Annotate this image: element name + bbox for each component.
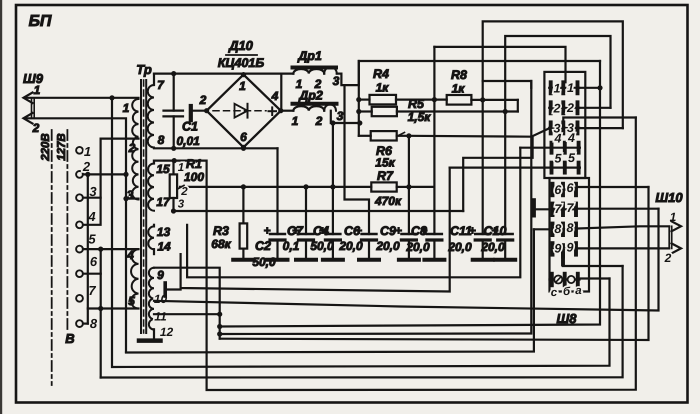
svg-text:8: 8 bbox=[158, 133, 165, 147]
winding pin 17 label bbox=[156, 195, 171, 209]
Ш8 row 2 labels bbox=[553, 101, 575, 115]
connector Ш8 housing upper bbox=[544, 72, 585, 178]
wire run w15-17 top to female3 bbox=[207, 118, 636, 391]
svg-text:20,0: 20,0 bbox=[375, 239, 400, 253]
wire R4 to R8 bbox=[396, 98, 447, 100]
fraction bar bbox=[226, 54, 257, 56]
wire transformer tap 2 step to terminal 3 bbox=[83, 139, 139, 198]
secondary winding 7-8 bbox=[148, 85, 154, 148]
label R1 pin 1 bbox=[178, 162, 184, 174]
label 127В bbox=[56, 133, 68, 161]
svg-text:Тр: Тр bbox=[136, 62, 152, 77]
capacitor C6 bottom lead bbox=[368, 240, 370, 259]
svg-text:а: а bbox=[575, 285, 582, 297]
Ш8 row 7 lead bbox=[553, 208, 577, 210]
node R1 top junction bbox=[172, 158, 177, 163]
svg-text:68к: 68к bbox=[211, 237, 231, 251]
svg-text:9: 9 bbox=[554, 241, 561, 255]
primary pin 3 label bbox=[127, 188, 134, 202]
Ш8 row 3 labels bbox=[554, 121, 575, 135]
transformer Тр label bbox=[136, 62, 152, 77]
svg-text:1к: 1к bbox=[376, 81, 390, 95]
svg-text:6: 6 bbox=[90, 254, 98, 269]
wire rail through R7 right bbox=[409, 186, 435, 188]
node terminal-2 / Ш9-2 junction bbox=[123, 172, 128, 177]
ground bar C7 bbox=[296, 258, 316, 262]
wire Ш9-1 to transformer pin 1 bbox=[25, 97, 139, 99]
wire R6 left lead bbox=[359, 135, 371, 137]
ground bar C8 bbox=[424, 258, 444, 262]
winding pin 8 label bbox=[158, 133, 165, 147]
label Д10 bbox=[228, 38, 254, 53]
capacitor C7 value bbox=[283, 239, 300, 253]
svg-text:5: 5 bbox=[88, 232, 96, 247]
wire winding 8 line bbox=[154, 147, 278, 149]
svg-text:С8: С8 bbox=[411, 224, 427, 238]
node winding 8 junction bbox=[171, 146, 176, 151]
svg-text:6: 6 bbox=[567, 181, 575, 195]
svg-text:220В: 220В bbox=[40, 133, 52, 162]
svg-text:4: 4 bbox=[126, 248, 134, 262]
wire C6 feed from Др1-3 bbox=[345, 85, 370, 234]
resistor R1 bbox=[170, 174, 177, 198]
svg-text:1: 1 bbox=[292, 114, 299, 128]
wire row2 left feed vertical bbox=[517, 100, 519, 112]
choke Др2 winding bbox=[293, 104, 336, 110]
svg-text:R7: R7 bbox=[377, 169, 394, 183]
svg-text:7: 7 bbox=[567, 201, 575, 215]
wire row8 right lead bbox=[578, 226, 669, 228]
wire R4 left lead bbox=[359, 98, 370, 100]
label R7 bbox=[377, 169, 394, 183]
wire row7 right lead bbox=[578, 208, 659, 210]
svg-text:5: 5 bbox=[128, 294, 135, 308]
svg-text:0,01: 0,01 bbox=[177, 134, 201, 148]
Ш8 row 8 pins bbox=[553, 224, 577, 236]
wire C10 vertical bbox=[504, 112, 506, 235]
connector Ш10 pin 2 label bbox=[664, 251, 672, 265]
wire run w14 to row5 bbox=[181, 168, 450, 292]
node tap-5 wire junction bbox=[98, 306, 103, 311]
wire R8 right lead bbox=[471, 99, 517, 101]
resistor R3 bbox=[240, 223, 248, 248]
winding 15 stub bbox=[153, 161, 155, 164]
capacitor C9 value bbox=[375, 239, 400, 253]
wire rail 17 bbox=[174, 210, 464, 212]
wire winding 15-17 top lead bbox=[154, 161, 207, 390]
svg-text:С6: С6 bbox=[344, 224, 361, 238]
capacitor C2 plates bbox=[270, 234, 285, 240]
svg-text:R5: R5 bbox=[408, 97, 425, 111]
resistor R5 bbox=[372, 107, 397, 116]
choke Др1 pin 2 label bbox=[314, 77, 322, 91]
svg-text:1: 1 bbox=[567, 81, 574, 95]
capacitor C4 label bbox=[313, 224, 329, 238]
terminal 7 of selector bbox=[76, 295, 83, 302]
node Др2-3 to C4 junction bbox=[330, 120, 335, 125]
svg-text:R1: R1 bbox=[186, 157, 202, 171]
svg-text:50,0: 50,0 bbox=[310, 239, 334, 253]
wire R network left vertical bbox=[358, 61, 360, 136]
node w11 fork junction bbox=[217, 312, 222, 317]
choke Др2 pin 2 label bbox=[315, 114, 323, 128]
wire bridge minus drop bbox=[276, 148, 278, 234]
wire run w10 to row7 bbox=[154, 209, 659, 311]
wire run Ш9-1 to contact a bbox=[112, 98, 610, 367]
wire terminal 6 step down bbox=[83, 273, 101, 275]
Ш8 row 7 labels bbox=[554, 201, 574, 216]
transformer primary winding 4-5 bbox=[131, 249, 138, 308]
ground bar C11 bbox=[473, 258, 493, 262]
svg-text:2: 2 bbox=[180, 186, 188, 198]
wire row1 right lead bbox=[579, 87, 600, 89]
capacitor C10 plus bbox=[491, 224, 498, 238]
capacitor C8 label bbox=[411, 224, 427, 238]
wire R6 line to Ш8 pin 3 bbox=[409, 135, 531, 138]
wire selector common vertical bbox=[100, 249, 102, 377]
svg-text:14: 14 bbox=[157, 240, 171, 254]
terminal 6 label bbox=[90, 254, 98, 269]
node R4 left bbox=[356, 97, 361, 102]
wire terminal 5 to transformer tap 4 bbox=[83, 248, 139, 250]
terminal 4 of selector bbox=[76, 221, 83, 228]
ground bar C10 bbox=[495, 258, 515, 262]
winding pin 9 label bbox=[157, 268, 164, 282]
svg-text:С9: С9 bbox=[380, 224, 396, 238]
svg-text:БП: БП bbox=[29, 13, 52, 30]
node R8 right bbox=[480, 97, 485, 102]
node R1 bottom junction bbox=[171, 208, 176, 213]
resistor R6 bbox=[371, 131, 397, 140]
wire row1 left feed bbox=[483, 81, 532, 88]
wire tap 3 stub bbox=[126, 198, 139, 200]
svg-text:8: 8 bbox=[567, 221, 574, 235]
transformer core line 1 bbox=[140, 80, 142, 333]
wire C11 vertical bbox=[482, 100, 484, 234]
winding 7 top stub bbox=[153, 74, 155, 85]
node winding 8 to bridge 6 bbox=[241, 146, 246, 151]
node run fork 1 bbox=[217, 324, 222, 329]
wire R5 left lead bbox=[359, 110, 372, 112]
svg-text:R4: R4 bbox=[373, 67, 389, 81]
svg-text:8: 8 bbox=[90, 316, 98, 331]
label R7 value 470к bbox=[374, 194, 402, 208]
Ш8 row 8 labels bbox=[554, 221, 573, 236]
terminal 1 label bbox=[84, 144, 91, 159]
node R5 left bbox=[356, 109, 361, 114]
capacitor C7 bottom lead bbox=[305, 240, 307, 259]
svg-text:2: 2 bbox=[82, 159, 91, 174]
capacitor C4 value bbox=[310, 239, 334, 253]
Ш8 row 3 pins bbox=[551, 122, 578, 133]
svg-text:7: 7 bbox=[157, 78, 165, 92]
connector Ш9 pin 2 arrow bbox=[24, 113, 33, 124]
Ш8 row 7 pins bbox=[553, 204, 577, 216]
wire female3 lead bbox=[563, 118, 636, 123]
capacitor C11 bottom lead bbox=[482, 240, 484, 259]
svg-text:Др2: Др2 bbox=[298, 89, 323, 103]
svg-text:2: 2 bbox=[32, 121, 40, 135]
svg-text:470к: 470к bbox=[374, 194, 402, 208]
capacitor C8 plus bbox=[420, 224, 427, 238]
capacitor C1 value 0,01 bbox=[177, 134, 201, 148]
svg-text:9: 9 bbox=[567, 240, 574, 254]
wire female9 lead bbox=[563, 265, 623, 267]
Ш8 bottom row lead bbox=[550, 278, 580, 280]
wire C4 top lead bbox=[332, 123, 334, 234]
label R4 bbox=[373, 67, 389, 81]
wire winding 7 to bridge and Др1 bbox=[154, 72, 293, 74]
wire terminal 2 to node bbox=[83, 173, 126, 175]
svg-text:50,0: 50,0 bbox=[252, 255, 276, 269]
label R3 value 68к bbox=[211, 237, 231, 251]
node bridge pin 4 bbox=[278, 108, 283, 113]
label R5 value 1,5к bbox=[408, 110, 432, 124]
wire row2 right lead bbox=[579, 107, 610, 109]
choke Др1 pin 3 label bbox=[333, 74, 340, 88]
svg-text:0,1: 0,1 bbox=[283, 239, 300, 253]
winding pin 10 label bbox=[154, 292, 168, 306]
label R6 bbox=[376, 144, 393, 158]
wire Др1 pin 3 down-right-up bbox=[337, 61, 600, 85]
svg-text:4: 4 bbox=[271, 89, 279, 103]
bridge pin 4 label bbox=[271, 89, 279, 103]
label В bbox=[65, 331, 74, 346]
wire Ш9-2 line down to bottom run bbox=[125, 199, 127, 352]
node C7 top bbox=[303, 184, 308, 189]
node terminal-2 branch bbox=[85, 172, 90, 177]
label R6 value 15к bbox=[375, 156, 395, 170]
choke Др2 label bbox=[298, 89, 323, 103]
wire screen tap stub bbox=[165, 288, 180, 290]
label R1 value 100 bbox=[184, 170, 204, 184]
label R8 value 1к bbox=[452, 82, 466, 96]
transformer core line 2 bbox=[145, 80, 147, 333]
Ш8 row 7 external bar bbox=[532, 200, 536, 215]
label КЦ401Б bbox=[218, 56, 265, 70]
svg-text:9: 9 bbox=[157, 268, 164, 282]
terminal 6 of selector bbox=[76, 270, 83, 277]
capacitor C8 plates bbox=[427, 234, 442, 240]
capacitor C2 value bbox=[252, 255, 276, 269]
label R8 bbox=[451, 68, 467, 82]
connector Ш8 label bbox=[557, 311, 578, 326]
capacitor C6 value bbox=[338, 239, 363, 253]
resistor R7 bbox=[371, 182, 396, 191]
Ш8 row 6 labels bbox=[554, 181, 574, 197]
svg-text:7: 7 bbox=[88, 283, 96, 298]
choke Др2 pin 3 label bbox=[337, 109, 344, 123]
winding pin 15 label bbox=[156, 162, 170, 176]
bridge pin 6 label bbox=[240, 130, 247, 144]
svg-text:2: 2 bbox=[315, 114, 323, 128]
svg-text:4: 4 bbox=[567, 131, 575, 145]
svg-text:1: 1 bbox=[123, 101, 130, 115]
svg-text:13: 13 bbox=[157, 225, 171, 239]
wire Ш9-2 to selector bbox=[25, 118, 126, 198]
ground bar R3 bbox=[233, 258, 254, 262]
terminal 8 label bbox=[90, 316, 98, 331]
Ш8 female 9 bar bbox=[561, 254, 565, 265]
wire R6-R7-C9 vertical bbox=[408, 136, 410, 234]
svg-text:R8: R8 bbox=[451, 68, 467, 82]
resistor R4 bbox=[370, 95, 397, 105]
node bridge pin 6 bbox=[241, 145, 246, 150]
svg-text:1: 1 bbox=[34, 83, 41, 97]
label R1 pin 2 bbox=[180, 186, 188, 198]
capacitor C9 plus bbox=[395, 224, 402, 238]
wire Др2 pin 3 lead bbox=[331, 111, 360, 123]
wire row6 right lead bbox=[578, 186, 649, 188]
svg-text:100: 100 bbox=[184, 170, 204, 184]
connector Ш10 pin 1 arrow bbox=[672, 221, 682, 231]
label БП bbox=[29, 13, 52, 30]
Ш8 row 9 lead bbox=[553, 248, 577, 250]
svg-text:12: 12 bbox=[160, 325, 174, 339]
wire R3 top lead bbox=[242, 187, 244, 224]
resistor R8 bbox=[447, 95, 472, 105]
wire bar to bridge pin 2 bbox=[193, 110, 207, 112]
svg-text:2: 2 bbox=[664, 251, 672, 265]
capacitor C7 plus bbox=[292, 224, 299, 238]
choke Др1 pin 1 label bbox=[296, 77, 303, 91]
wire R6 right lead bbox=[397, 135, 409, 137]
node R5 C10 junction bbox=[503, 109, 508, 114]
node row1 right bbox=[597, 85, 602, 90]
svg-text:2: 2 bbox=[553, 101, 561, 115]
secondary winding 13-14 bbox=[148, 226, 154, 249]
Ш8 row 9 labels bbox=[554, 240, 573, 255]
svg-text:1: 1 bbox=[239, 79, 246, 93]
capacitor C2 plus bbox=[263, 224, 270, 238]
svg-text:С4: С4 bbox=[313, 224, 329, 238]
svg-text:2: 2 bbox=[128, 141, 136, 155]
connector Ш9 pin 1 label bbox=[34, 83, 41, 97]
Ш8 row 5 labels bbox=[555, 151, 577, 166]
Ш8 contact o bbox=[568, 276, 575, 283]
node transformer tap 3 junction bbox=[123, 196, 128, 201]
svg-text:2: 2 bbox=[199, 93, 207, 107]
connector Ш10 pin 2 arrow bbox=[672, 243, 682, 253]
primary pin 2 label bbox=[128, 141, 136, 155]
svg-text:Д10: Д10 bbox=[228, 38, 254, 53]
Ш8 row 3 lead bbox=[549, 127, 579, 129]
svg-text:6: 6 bbox=[554, 183, 562, 197]
terminal 7 label bbox=[88, 283, 96, 298]
Ш8 row 8 lead bbox=[553, 228, 577, 230]
wire terminal-2 down to winding tap 5 area bbox=[87, 174, 89, 323]
wire w9 lead down bbox=[154, 268, 220, 339]
node terminal-5 junction bbox=[98, 247, 103, 252]
capacitor C6 plates bbox=[362, 234, 377, 240]
diode bridge D10 diamond bbox=[207, 75, 281, 148]
Ш8 row 5 pins bbox=[552, 163, 579, 173]
Ш8 labels с б а bbox=[551, 285, 583, 299]
Ш8 row 7 external lead bbox=[536, 208, 553, 210]
wire row4 feed step bbox=[463, 137, 532, 211]
bridge pin 1 label bbox=[239, 79, 246, 93]
connector Ш10 bracket bbox=[669, 226, 672, 248]
Ш8 row 6 lead bbox=[553, 188, 577, 190]
winding pin 13 label bbox=[157, 225, 171, 239]
wire terminal 4 to step bbox=[83, 198, 101, 225]
label R4 value 1к bbox=[376, 81, 390, 95]
terminal 4 label bbox=[87, 209, 96, 224]
svg-text:1к: 1к bbox=[452, 82, 466, 96]
wire diagonal into pin 3 bbox=[531, 128, 549, 137]
node run fork 2 bbox=[217, 331, 222, 336]
svg-text:11: 11 bbox=[154, 310, 167, 324]
resistor R1 wiper arrow bbox=[179, 185, 185, 188]
label 220В bbox=[40, 133, 52, 162]
resistor R6 tap arrow bbox=[399, 132, 405, 135]
svg-text:6: 6 bbox=[240, 130, 247, 144]
svg-text:В: В bbox=[65, 331, 74, 346]
label R1 pin 3 bbox=[178, 199, 185, 211]
svg-text:КЦ401Б: КЦ401Б bbox=[218, 56, 265, 70]
wire C7 top lead bbox=[305, 187, 307, 234]
primary pin 1 label bbox=[123, 101, 130, 115]
capacitor C1 bottom lead bbox=[173, 116, 175, 148]
choke Др2 pin 1 label bbox=[292, 114, 299, 128]
wire w11 lead bbox=[154, 313, 220, 315]
wire R1 bottom lead bbox=[172, 198, 174, 211]
capacitor C10 label bbox=[484, 224, 507, 238]
label R5 bbox=[408, 97, 425, 111]
svg-text:3: 3 bbox=[333, 74, 340, 88]
wire run to row6 bbox=[220, 187, 649, 340]
wire wiper rail bbox=[180, 186, 371, 188]
capacitor C9 plates bbox=[401, 234, 416, 240]
capacitor C1 plates bbox=[164, 111, 184, 117]
svg-text:20,0: 20,0 bbox=[447, 240, 472, 254]
node R7 right bbox=[406, 184, 411, 189]
terminal 5 label bbox=[88, 232, 96, 247]
winding 14 stub bbox=[153, 249, 155, 254]
choke Др2 core bar bbox=[293, 102, 337, 106]
bridge dashed midline bbox=[213, 110, 266, 112]
ground bar C9 bbox=[399, 258, 419, 262]
svg-text:127В: 127В bbox=[56, 133, 68, 161]
terminal 1 of selector bbox=[76, 147, 83, 154]
terminal 2 label bbox=[82, 159, 91, 174]
chassis ground bar of core bbox=[139, 338, 161, 343]
svg-text:1: 1 bbox=[84, 144, 91, 159]
svg-text:15: 15 bbox=[156, 162, 170, 176]
wire run to row1 left bbox=[220, 81, 532, 334]
wire bridge pin 4 to Др2 bbox=[281, 110, 294, 112]
terminal 5 of selector bbox=[76, 246, 83, 253]
svg-text:15к: 15к bbox=[375, 156, 395, 170]
winding 10 screen tap bar bbox=[163, 283, 167, 296]
connector Ш8 housing lower bbox=[550, 178, 590, 292]
node bridge pin 1 bbox=[241, 72, 246, 77]
capacitor C4 plates bbox=[325, 234, 340, 240]
svg-text:С10: С10 bbox=[484, 224, 507, 238]
capacitor C1 label bbox=[182, 120, 198, 134]
capacitor C11 plates bbox=[475, 234, 490, 240]
svg-text:5: 5 bbox=[568, 151, 576, 165]
svg-text:б: б bbox=[563, 286, 571, 298]
svg-text:3: 3 bbox=[127, 188, 134, 202]
svg-text:1: 1 bbox=[554, 81, 561, 95]
Ш8 contact ø bbox=[554, 276, 562, 284]
capacitor C2 bottom lead bbox=[276, 240, 278, 259]
svg-text:Др1: Др1 bbox=[297, 49, 322, 63]
svg-text:С7: С7 bbox=[287, 224, 304, 238]
svg-text:3: 3 bbox=[337, 109, 344, 123]
wire run selector common to female9 bbox=[101, 266, 623, 378]
